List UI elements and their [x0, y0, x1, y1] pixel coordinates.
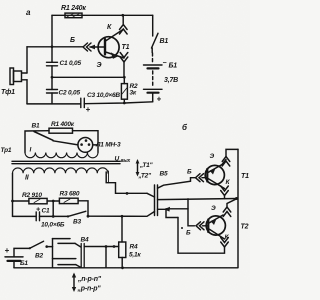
- wire socket bottom pin: [158, 209, 179, 217]
- wire switch to battery: [151, 48, 153, 53]
- T2 collector probe arrows: [221, 242, 229, 247]
- switch V2: [30, 241, 44, 248]
- wire V2 to V4 link: [47, 246, 53, 248]
- transformer Tr1 winding II: [13, 168, 108, 173]
- switch V4 bottom fork: [53, 258, 76, 260]
- node left rail / R2 row: [11, 200, 14, 203]
- T1 base probe chevron: [196, 174, 201, 182]
- T2 base probe chevron: [196, 222, 201, 230]
- wire base from Tf1: [27, 46, 83, 48]
- wire T1 emitter to rail top: [222, 160, 226, 165]
- wire bottom rail fig a (left of C3): [27, 103, 81, 105]
- wire emitter node to R2: [123, 77, 125, 83]
- capacitor C1 10,0x6B electrolytic (fig b): [35, 212, 37, 221]
- wire Tf1 bottom to rail: [26, 80, 28, 104]
- wire V1 post to R1: [25, 131, 49, 153]
- transistor T2 (fig v) circle: [206, 216, 225, 235]
- resistor R1 400k (fig b): [49, 128, 73, 133]
- node V4 rail drop: [105, 245, 108, 248]
- wire V4 left vertical link: [52, 239, 54, 268]
- resistor R1 240k (fig a): [65, 13, 82, 18]
- T1 collector lead: [208, 179, 225, 189]
- wire T2 emitter to junction: [227, 199, 237, 207]
- wire chevron to T2 base bar: [203, 225, 208, 227]
- T1 collector probe arrows: [221, 191, 229, 196]
- wire T2 base drop: [188, 199, 195, 226]
- wire socket top pin to T1 base: [158, 178, 196, 189]
- resistor R2 910: [29, 198, 47, 203]
- node R2 bottom: [123, 102, 126, 105]
- transformer Tr1 winding I: [25, 153, 98, 158]
- wire bottom rail fig a (right of C3): [84, 102, 152, 104]
- switch V1 (fig a): [152, 15, 154, 36]
- node emitter line right: [123, 76, 126, 79]
- wire battery up to V2: [14, 248, 30, 257]
- wire V4 drop to bottom rail: [105, 247, 107, 268]
- switch V4 top fork: [53, 238, 71, 240]
- wire C1 to V3: [40, 215, 69, 217]
- transistor T1 emitter lead with arrow: [106, 52, 125, 58]
- transistor T1 (fig a) circle: [98, 37, 119, 58]
- wire top rail fig a: [52, 14, 153, 16]
- transformer core: [12, 160, 120, 162]
- T1 base bar: [206, 169, 208, 182]
- socket double bar: [154, 185, 156, 216]
- node on output line: [126, 192, 129, 195]
- selector arrow V5: [137, 161, 139, 175]
- earphone Tf1: [10, 68, 14, 85]
- emitter probe double arrow (fig a): [120, 57, 128, 62]
- wire T1 collector to junction: [224, 196, 226, 199]
- battery B1 3,7V (fig a) cell 1: [144, 64, 163, 66]
- wire left vertical from rail: [51, 15, 53, 62]
- wire C1C2 junction to emitter: [52, 76, 124, 78]
- T2 emitter with arrow: [209, 215, 223, 223]
- wire diagonal to socket top: [147, 193, 155, 197]
- switch V4 moving bars: [80, 244, 82, 268]
- resistor R3 680: [59, 198, 78, 203]
- wire R2-R3: [47, 200, 59, 202]
- base probe double chevron (fig a): [83, 43, 88, 51]
- node junction top rail / collector: [121, 14, 124, 17]
- wire V4 to R4 top rail: [84, 246, 119, 248]
- wire R1 to right corner: [73, 131, 99, 153]
- capacitor C3 10,0x6V electrolytic: [80, 98, 82, 107]
- wire collector diagonal to T1: [106, 30, 124, 42]
- node R4 bottom: [121, 266, 124, 269]
- wire R2 to bottom rail: [123, 99, 125, 103]
- wire R4 top from socket line: [121, 216, 123, 242]
- wire V3 node to socket bottom line: [88, 212, 155, 217]
- wire T2 collector return loop: [178, 218, 225, 254]
- wire V5 stub with arrow: [166, 208, 188, 210]
- wire chevron to base bar: [202, 177, 207, 179]
- T1 emitter probe arrows: [222, 157, 230, 162]
- node C1C2/emitter line left: [51, 76, 54, 79]
- resistor R2 3k (fig a): [121, 84, 127, 100]
- wire Tf1 top to base: [26, 47, 28, 73]
- wire R4 bottom: [121, 258, 123, 268]
- wire socket middle pin long line to rail: [158, 199, 238, 200]
- battery B1 cell 2: [144, 88, 163, 90]
- T1 emitter with arrow: [208, 165, 222, 173]
- resistor R4 5,1k: [119, 242, 126, 258]
- T2 collector lead: [209, 229, 225, 239]
- node V3 right / R3 drop: [87, 215, 90, 218]
- node rail junction: [235, 197, 238, 200]
- wire C2 to bottom rail: [51, 93, 53, 104]
- wire rail to R2: [13, 200, 29, 202]
- node base/vertical junction: [51, 45, 54, 48]
- wire C1/V3 line left segment: [13, 215, 37, 217]
- T2 base bar: [207, 220, 209, 233]
- capacitor C1 0,05: [47, 61, 58, 63]
- node C1 line / R2R3 drop: [52, 215, 55, 218]
- npn pnp selector arrow: [73, 275, 75, 291]
- wire bottom rail fig b: [14, 267, 238, 269]
- transistor T1 base lead arrow: [90, 46, 104, 48]
- wire winding II right end down-steps: [106, 172, 147, 193]
- wire emitter drop: [123, 62, 125, 77]
- T2 emitter probe arrows: [223, 207, 231, 212]
- wire R2R3 junction down to C1 line: [52, 201, 54, 217]
- wire battery down to bottom rail: [13, 261, 15, 268]
- collector probe double arrow (fig a): [120, 25, 128, 30]
- wire between C1 C2: [51, 66, 53, 90]
- wire right rail: [237, 149, 239, 267]
- switch V3: [67, 215, 69, 217]
- wire lamp right lead: [93, 144, 98, 146]
- capacitor C2 0,05: [47, 89, 58, 91]
- paper noise overlay: [0, 0, 1, 1]
- wire R3 right corner down: [78, 201, 88, 216]
- lamp L1 MN-3: [78, 138, 93, 153]
- node R4 feed: [121, 215, 124, 218]
- wire collector drop: [122, 15, 124, 23]
- transistor T1 (fig v) circle: [205, 165, 224, 184]
- transistor T1 base bar: [104, 39, 106, 54]
- battery dashed link: [152, 71, 154, 87]
- wire lever to lamp: [53, 141, 78, 145]
- wire battery to bottom rail: [152, 94, 154, 102]
- wire left rail (winding II left down): [12, 173, 14, 216]
- node R2R3 junction: [52, 200, 55, 203]
